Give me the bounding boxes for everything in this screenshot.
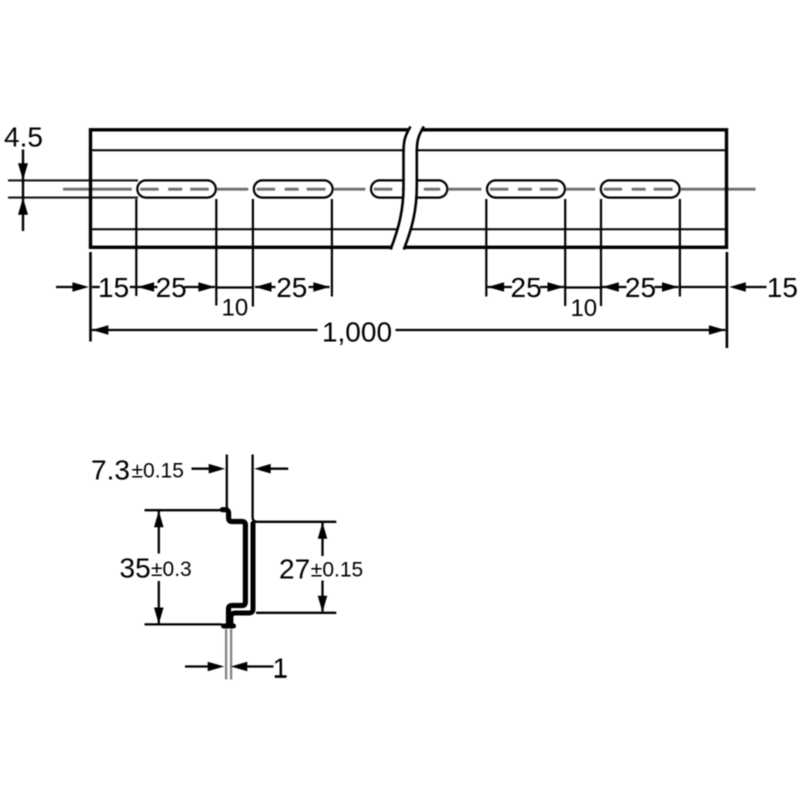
svg-text:25: 25	[625, 272, 656, 303]
svg-text:10: 10	[222, 294, 249, 321]
svg-text:15: 15	[767, 272, 798, 303]
svg-text:15: 15	[98, 272, 129, 303]
svg-text:4.5: 4.5	[4, 121, 43, 152]
svg-text:25: 25	[156, 272, 187, 303]
svg-text:1,000: 1,000	[322, 316, 392, 347]
svg-text:35: 35	[120, 553, 151, 584]
svg-text:±0.15: ±0.15	[311, 558, 363, 581]
svg-text:25: 25	[276, 272, 307, 303]
svg-text:27: 27	[279, 553, 310, 584]
svg-text:7.3: 7.3	[91, 455, 130, 486]
svg-text:10: 10	[570, 295, 597, 322]
svg-text:1: 1	[273, 652, 289, 683]
svg-text:±0.3: ±0.3	[151, 558, 192, 581]
svg-text:25: 25	[511, 272, 542, 303]
svg-text:±0.15: ±0.15	[132, 460, 184, 483]
